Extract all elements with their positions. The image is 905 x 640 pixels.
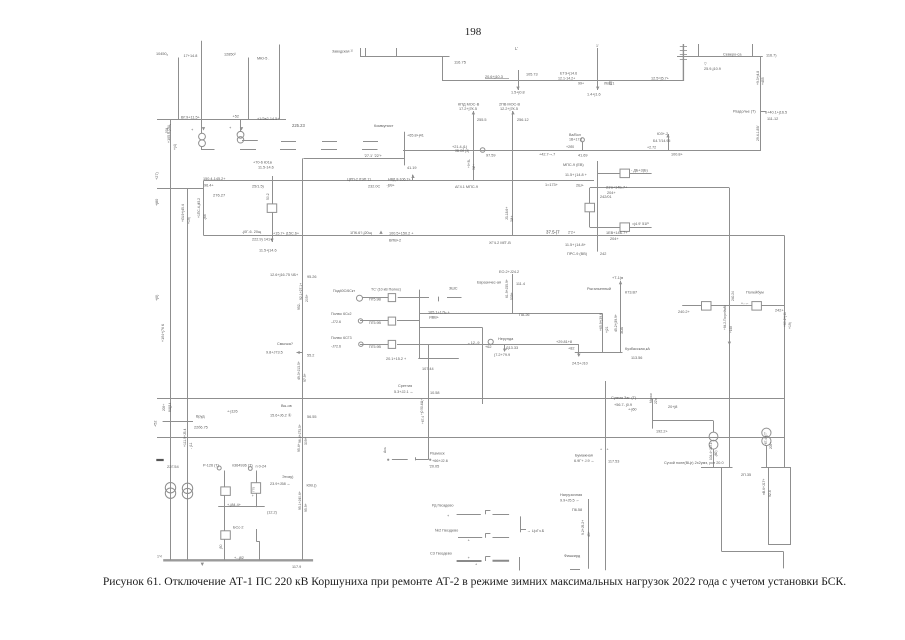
svg-text:Евразичес-ая: Евразичес-ая <box>477 281 501 285</box>
svg-text:+1б4+j76 К: +1б4+j76 К <box>161 323 165 342</box>
svg-text:+: + <box>191 127 194 132</box>
svg-text:100.8+: 100.8+ <box>671 153 684 157</box>
svg-text:+9.3+j4.8: +9.3+j4.8 <box>756 71 760 85</box>
svg-text:+1/2в2-14.5+: +1/2в2-14.5+ <box>257 117 280 121</box>
svg-text:+-j126: +-j126 <box>227 410 238 414</box>
svg-text:10.58: 10.58 <box>430 391 440 395</box>
svg-text:ТС' (10 кВ Полюс): ТС' (10 кВ Полюс) <box>371 288 401 292</box>
svg-text:+15.7+ j15С.6+: +15.7+ j15С.6+ <box>273 232 300 236</box>
svg-text:8Щ(14: 8Щ(14 <box>168 402 172 412</box>
svg-text:-J72.6: -J72.6 <box>331 320 341 324</box>
svg-text:Нагрузочная: Нагрузочная <box>560 493 582 497</box>
svg-text:117.53: 117.53 <box>608 460 619 464</box>
svg-text:9.8+J73.5: 9.8+J73.5 <box>266 351 283 355</box>
svg-text:+82: +82 <box>568 347 574 351</box>
svg-text:1.5+j0.8: 1.5+j0.8 <box>511 91 525 95</box>
svg-text:10450₄: 10450₄ <box>156 52 169 56</box>
svg-text:ЛВ䐇1: ЛВ䐇1 <box>604 81 614 86</box>
svg-text:Сретгия: Сретгия <box>398 384 412 388</box>
svg-text:+42.7-¬.7: +42.7-¬.7 <box>539 153 555 157</box>
svg-text:п364936 (Т): п364936 (Т) <box>232 464 253 468</box>
svg-text:ПГ5.9В: ПГ5.9В <box>369 321 382 325</box>
svg-text:J3-18.6+: J3-18.6+ <box>505 207 509 220</box>
svg-text:+19): +19) <box>788 322 792 329</box>
svg-text:Вы-ов: Вы-ов <box>281 404 292 408</box>
svg-text:Мыски: Мыски <box>649 393 653 403</box>
svg-text:+111.9+J5.4: +111.9+J5.4 <box>183 429 187 447</box>
svg-text:113.56: 113.56 <box>631 356 642 360</box>
svg-text:Раздолье (Т): Раздолье (Т) <box>733 110 756 114</box>
svg-text:225.23: 225.23 <box>292 123 305 128</box>
svg-text:БСс-2: БСс-2 <box>233 526 243 530</box>
svg-text:+165: +165 <box>729 326 733 333</box>
svg-text:ГТ5: ГТ5 <box>252 487 256 492</box>
svg-text:+27): +27) <box>155 172 159 180</box>
svg-text:+70-6 Ю1в: +70-6 Ю1в <box>253 161 272 165</box>
svg-text:95.4+: 95.4+ <box>297 443 301 452</box>
svg-text:Этизу): Этизу) <box>282 475 294 479</box>
svg-text:11.5+ j14.8 +: 11.5+ j14.8 + <box>565 173 588 177</box>
svg-text:Фишкирд: Фишкирд <box>564 554 581 558</box>
svg-text:МЮ-5 .: МЮ-5 . <box>257 57 270 61</box>
svg-text:240.24: 240.24 <box>731 291 735 301</box>
svg-text:240.2+: 240.2+ <box>678 310 691 314</box>
svg-text:49.3+J13.5+: 49.3+J13.5+ <box>297 361 301 380</box>
svg-text:6.9Г+ J.9 ←: 6.9Г+ J.9 ← <box>574 459 595 463</box>
svg-text:29.4-1.85/: 29.4-1.85/ <box>756 126 760 141</box>
svg-text:нВ.6+J17+: нВ.6+J17+ <box>762 479 766 495</box>
svg-text:107.44: 107.44 <box>422 367 434 371</box>
svg-text:2'2+: 2'2+ <box>568 231 576 235</box>
svg-text:+Т-1(в: +Т-1(в <box>612 276 623 280</box>
svg-text:117.9: 117.9 <box>292 565 301 569</box>
svg-text:j50: j50 <box>219 544 223 550</box>
svg-text:256.12: 256.12 <box>517 118 529 122</box>
svg-text:276.27: 276.27 <box>213 193 226 198</box>
svg-text:222.9) 141+: 222.9) 141+ <box>252 238 273 242</box>
svg-text:96.4+J73.5+: 96.4+J73.5+ <box>298 424 302 443</box>
svg-text:ХГЧ.2 МП'-В: ХГЧ.2 МП'-В <box>489 241 511 245</box>
svg-text:100.5+150.2 +: 100.5+150.2 + <box>389 232 414 236</box>
svg-text:242/01: 242/01 <box>600 195 612 199</box>
svg-text:+52: +52 <box>233 114 239 118</box>
svg-text:-J72.6: -J72.6 <box>331 345 341 349</box>
svg-text:2ПВ МОС-В: 2ПВ МОС-В <box>499 103 521 107</box>
svg-text:+: + <box>723 306 725 310</box>
svg-text:15.6+J6.2 ①: 15.6+J6.2 ① <box>270 414 292 418</box>
svg-text:Северо-са: Северо-са <box>723 53 742 57</box>
svg-text:25.9-j10.9: 25.9-j10.9 <box>704 67 721 71</box>
svg-text:ЗОА: ЗОА <box>620 326 624 334</box>
svg-text:Рд Гвоздево: Рд Гвоздево <box>432 504 453 508</box>
svg-text:+: + <box>468 539 471 543</box>
svg-text:45+: 45+ <box>587 531 591 537</box>
svg-text:+52: +52 <box>154 421 158 427</box>
svg-text:(12.2): (12.2) <box>267 511 278 515</box>
svg-text:ВГ.9+11.5+: ВГ.9+11.5+ <box>181 116 201 120</box>
svg-text:9.9+J5.5 ←: 9.9+J5.5 ← <box>560 499 580 503</box>
svg-text:11.5-14.6: 11.5-14.6 <box>258 166 274 170</box>
svg-text:165.1+17Ь.+: 165.1+17Ь.+ <box>428 311 450 315</box>
svg-text:97.9+: 97.9+ <box>303 373 307 382</box>
svg-text:22'в: 22'в <box>654 398 658 404</box>
svg-text:ЕТЭ+j14.6: ЕТЭ+j14.6 <box>560 72 577 76</box>
svg-text:1В+17.1: 1В+17.1 <box>569 138 583 142</box>
svg-text:+-j60: +-j60 <box>628 408 637 412</box>
svg-text:+GL9+j45.4: +GL9+j45.4 <box>181 204 185 222</box>
svg-text:№2 Гвоздево: №2 Гвоздево <box>435 529 458 533</box>
svg-text:Б4.7/14.95: Б4.7/14.95 <box>653 139 670 143</box>
svg-text:41.69: 41.69 <box>578 154 588 158</box>
svg-text:Ва/Вол: Ва/Вол <box>569 133 581 137</box>
svg-text:+66+J2.6: +66+J2.6 <box>432 459 448 463</box>
svg-text:Вруд: Вруд <box>196 415 205 419</box>
svg-text:+65.9+j39.6: +65.9+j39.6 <box>599 313 603 331</box>
svg-text:1ПК.6?-j20щ: 1ПК.6?-j20щ <box>350 231 373 235</box>
svg-text:255.5: 255.5 <box>477 118 487 122</box>
svg-text:242: 242 <box>600 252 606 256</box>
svg-text:ЗВ.Об (З): ЗВ.Об (З) <box>455 149 469 153</box>
svg-text:104.4+J15.1: 104.4+J15.1 <box>709 442 713 460</box>
svg-text:Д13.33: Д13.33 <box>506 346 518 350</box>
svg-text:Ась: Ась <box>383 447 387 453</box>
svg-text:ΔГ4.1 МПС-9: ΔГ4.1 МПС-9 <box>455 185 478 189</box>
svg-text:Бумажная: Бумажная <box>575 454 593 458</box>
svg-text:Под40С/6Скт: Под40С/6Скт <box>333 289 355 293</box>
svg-text:L': L' <box>515 46 518 51</box>
svg-text:+67.4: +67.4 <box>421 416 425 424</box>
svg-text:209+: 209+ <box>162 404 166 411</box>
svg-text:95.9+: 95.9+ <box>304 503 308 512</box>
svg-text:204+: 204+ <box>610 237 619 241</box>
svg-text:92.4: 92.4 <box>768 490 772 497</box>
svg-text:9.2+J5.2+: 9.2+J5.2+ <box>581 520 585 535</box>
svg-text:Коммунист: Коммунист <box>374 124 394 128</box>
svg-text:ЦРП-2 ЛЭП 11: ЦРП-2 ЛЭП 11 <box>347 178 371 182</box>
svg-text:+4б5: +4б5 <box>761 77 765 85</box>
svg-text:+: + <box>600 448 602 452</box>
svg-text:41.19: 41.19 <box>407 166 417 170</box>
svg-text:Рыгальенный: Рыгальенный <box>587 287 611 291</box>
svg-text:+105.6-j2Щ: +105.6-j2Щ <box>167 124 171 143</box>
svg-text:56.55: 56.55 <box>307 415 317 419</box>
svg-text:'20.05: '20.05 <box>429 465 439 469</box>
svg-text:20+j8: 20+j8 <box>668 405 677 409</box>
svg-text:12.1-14.2+: 12.1-14.2+ <box>558 77 575 81</box>
svg-text:-j60): -j60) <box>714 451 718 457</box>
svg-text:17.2+j7К.5: 17.2+j7К.5 <box>459 107 477 111</box>
svg-text:2Ш+: 2Ш+ <box>576 184 585 188</box>
svg-text:952-: 952- <box>297 303 301 310</box>
svg-text:+67.4+(Т'': +67.4+(Т'' <box>764 431 768 446</box>
svg-text:37.5-|7: 37.5-|7 <box>546 229 560 234</box>
svg-text:1'ч': 1'ч' <box>157 555 163 559</box>
svg-text:'27.1' '22'+: '27.1' '22'+ <box>364 154 383 158</box>
svg-text:205+: 205+ <box>305 294 309 302</box>
svg-text:11.5+ j14.8+: 11.5+ j14.8+ <box>565 243 587 247</box>
svg-text:12.5=j5.7+: 12.5=j5.7+ <box>651 77 670 81</box>
svg-text:Кузбасская,кА: Кузбасская,кА <box>625 347 650 351</box>
svg-text:232.0С: 232.0С <box>368 185 381 189</box>
svg-text:12850¹: 12850¹ <box>224 53 237 57</box>
svg-text:ПГ5.9В: ПГ5.9В <box>369 298 382 302</box>
svg-text:2П.35: 2П.35 <box>741 473 751 477</box>
svg-text:Смычка?: Смычка? <box>277 342 293 346</box>
svg-text:61.9+J35.9+: 61.9+J35.9+ <box>505 279 509 298</box>
svg-text:ЗШС: ЗШС <box>449 287 458 291</box>
svg-text:3И+: 3И+ <box>472 164 476 170</box>
svg-text:КПД МОС-В: КПД МОС-В <box>458 103 480 107</box>
svg-text:-j0Г-6. 20щ: -j0Г-6. 20щ <box>242 230 262 234</box>
svg-text:20.6+j10.3: 20.6+j10.3 <box>485 75 503 79</box>
svg-text:- j11: - j11 <box>189 443 193 449</box>
svg-text:50.2: 50.2 <box>266 193 270 200</box>
svg-text:22б6.75: 22б6.75 <box>194 426 208 430</box>
svg-text:11.5+j14.6: 11.5+j14.6 <box>259 249 277 253</box>
svg-text:+: + <box>468 556 471 560</box>
svg-text:95.26: 95.26 <box>307 275 317 279</box>
svg-text:55.2: 55.2 <box>307 354 314 358</box>
svg-text:П6.58: П6.58 <box>572 508 582 512</box>
svg-text:+: + <box>229 125 232 130</box>
svg-text:С3 Гвоздево: С3 Гвоздево <box>430 552 452 556</box>
svg-text:ПА.26: ПА.26 <box>519 313 530 317</box>
svg-text:Полейбум: Полейбум <box>746 291 764 295</box>
svg-text:+29.81+8: +29.81+8 <box>556 340 572 344</box>
svg-text:Сумма Заг. (Т): Сумма Заг. (Т) <box>611 396 637 400</box>
svg-text:-j64: -j64 <box>203 214 207 220</box>
svg-text:111-12: 111-12 <box>767 117 778 121</box>
svg-text:242+: 242+ <box>775 309 784 313</box>
svg-text:150.4-145.2+: 150.4-145.2+ <box>203 177 226 181</box>
svg-text:ПГ5.9В: ПГ5.9В <box>369 345 382 349</box>
svg-text:НВД.8-106.7+: НВД.8-106.7+ <box>388 178 411 182</box>
svg-text:20.1+15.2 +: 20.1+15.2 + <box>386 357 407 361</box>
svg-text:21'в+14Б.7+: 21'в+14Б.7+ <box>606 185 628 189</box>
svg-text:3И+: 3И+ <box>510 216 514 222</box>
svg-text:+: + <box>475 563 478 567</box>
svg-text:ЕО.2+J24.2: ЕО.2+J24.2 <box>499 270 519 274</box>
svg-text:→ ЦчГч.Б: → ЦчГч.Б <box>527 529 545 533</box>
svg-text:45.2+j39.9+: 45.2+j39.9+ <box>614 314 618 332</box>
svg-text:-j99+: -j99+ <box>387 184 395 188</box>
svg-text:116.75: 116.75 <box>454 60 467 65</box>
svg-text:Полюс 6Сс2: Полюс 6Сс2 <box>331 312 351 316</box>
svg-text:96.4+: 96.4+ <box>204 184 214 188</box>
svg-text:МПС-9 (ЕВ): МПС-9 (ЕВ) <box>563 163 584 167</box>
svg-text:+j80: +j80 <box>155 199 159 206</box>
svg-text:ИВВ+: ИВВ+ <box>429 316 440 320</box>
svg-text:+2.72: +2.72 <box>647 146 656 150</box>
svg-text:+56.7- j0.9: +56.7- j0.9 <box>614 403 632 407</box>
svg-text:5.3+J2.1 ←: 5.3+J2.1 ← <box>394 390 414 394</box>
svg-text:- ДБ+3(Б): - ДБ+3(Б) <box>631 169 648 173</box>
svg-text:6+40.1+j16.5: 6+40.1+j16.5 <box>765 111 787 115</box>
svg-text:12.2+j7К.5: 12.2+j7К.5 <box>500 107 518 111</box>
svg-text:12.6+j16.75 ЧБ+: 12.6+j16.75 ЧБ+ <box>270 273 299 277</box>
svg-text:99+: 99+ <box>578 82 584 86</box>
svg-text:←12.-9: ←12.-9 <box>467 341 479 345</box>
svg-text:+9+3L: +9+3L <box>467 159 471 168</box>
svg-text:Сучой поле(ВЦг) 2х2умэ, рот: Сучой поле(ВЦг) 2х2умэ, рот 20.0 <box>664 461 724 465</box>
svg-text:111.4: 111.4 <box>516 282 525 286</box>
svg-text:ПРС-9 (ВВ): ПРС-9 (ВВ) <box>567 252 588 256</box>
svg-text:22Г.54: 22Г.54 <box>167 464 179 469</box>
svg-text:Р-126 (Т): Р-126 (Т) <box>203 464 220 468</box>
svg-text:ЮЗ+-2: ЮЗ+-2 <box>657 132 668 136</box>
svg-text:92.1+27.1+: 92.1+27.1+ <box>299 283 303 300</box>
svg-text:+--j82: +--j82 <box>234 556 244 560</box>
svg-text:17+14.8: 17+14.8 <box>184 54 198 58</box>
svg-text:1=173+: 1=173+ <box>545 183 559 187</box>
svg-text:1ЕВ+14Б.7+: 1ЕВ+14Б.7+ <box>606 231 628 235</box>
svg-text:+1ПС.4-j45.2: +1ПС.4-j45.2 <box>197 198 201 218</box>
svg-text:105.73: 105.73 <box>526 73 538 77</box>
svg-text:К73.В7: К73.В7 <box>625 291 637 295</box>
svg-text:24.5+J10: 24.5+J10 <box>572 362 588 366</box>
svg-text:+j4): +j4) <box>173 144 177 150</box>
svg-text:Размоск: Размоск <box>430 452 445 456</box>
svg-text:+62: +62 <box>485 345 491 349</box>
svg-text:+j0 50.4Щ+: +j0 50.4Щ+ <box>420 399 424 415</box>
svg-text:95.1+J40.6+: 95.1+J40.6+ <box>298 491 302 510</box>
svg-text:Полюс 6СГ3: Полюс 6СГ3 <box>331 336 352 340</box>
svg-text:(7.2+79.9: (7.2+79.9 <box>494 353 510 357</box>
svg-text:+65.8+j41: +65.8+j41 <box>407 134 424 138</box>
svg-text:=j4.9' 51Р: =j4.9' 51Р <box>632 222 649 226</box>
svg-text:п 0-24: п 0-24 <box>256 464 267 468</box>
svg-text:+j21: +j21 <box>605 326 609 333</box>
svg-text:192.2+: 192.2+ <box>656 430 669 434</box>
svg-text:539+: 539+ <box>510 292 514 300</box>
svg-text:116.7): 116.7) <box>766 54 777 58</box>
svg-text:1.4+j1.6: 1.4+j1.6 <box>587 93 601 97</box>
svg-text:Заводская ¹²: Заводская ¹² <box>332 50 354 54</box>
svg-text:209+: 209+ <box>769 442 773 449</box>
svg-text:ВПВ+2: ВПВ+2 <box>389 239 401 243</box>
svg-text:25/1.5): 25/1.5) <box>252 185 265 189</box>
svg-text:97.59: 97.59 <box>486 154 496 158</box>
svg-text:309+: 309+ <box>304 437 308 445</box>
svg-text:+-j84.4+: +-j84.4+ <box>227 503 242 507</box>
svg-text:+←⌐: +←⌐ <box>741 301 748 305</box>
svg-text:+19): +19) <box>187 217 191 224</box>
svg-text:+: + <box>252 494 254 498</box>
svg-text:+2б0: +2б0 <box>566 145 574 149</box>
svg-text:▽: ▽ <box>704 62 707 66</box>
svg-text:1': 1' <box>596 44 599 48</box>
svg-text:+: + <box>607 448 609 452</box>
svg-text:+60.2+j11: +60.2+j11 <box>783 312 787 327</box>
svg-text:23.9+J58 ←: 23.9+J58 ← <box>270 482 291 486</box>
svg-text:Нерунда: Нерунда <box>498 337 514 341</box>
svg-text:+: + <box>447 514 450 518</box>
svg-text:ЮВ.(): ЮВ.() <box>307 484 318 488</box>
svg-text:+j0): +j0) <box>155 294 159 301</box>
